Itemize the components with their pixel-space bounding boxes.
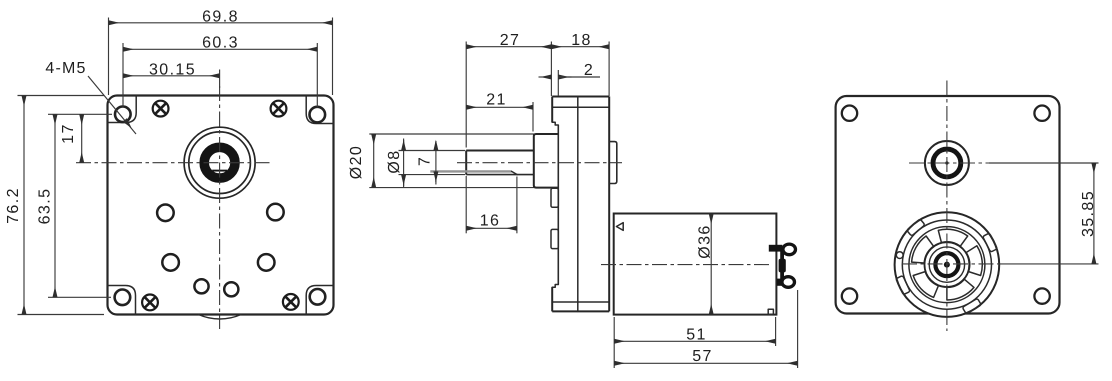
rim tab 2 — [983, 233, 998, 252]
dim 69.8 line — [109, 22, 333, 24]
rear bearing boss — [609, 142, 617, 184]
rim tab 4 — [896, 276, 910, 295]
dim Ø20 extension bottom — [369, 187, 534, 189]
brush card blob — [779, 259, 786, 273]
small hole E — [194, 279, 208, 293]
corner pad top-left — [108, 96, 137, 123]
dim 63.5 line — [54, 114, 56, 297]
dim 69.8 extension left — [108, 18, 110, 96]
small hole D — [258, 254, 275, 271]
vent slot 2 — [938, 229, 967, 246]
flange boss bump upper — [551, 188, 558, 207]
dim Ø36 line — [710, 214, 712, 315]
dim 63.5 extension top — [48, 113, 112, 115]
shaft top edge — [466, 150, 534, 152]
dim 17 line — [81, 114, 83, 162]
shaft flat chord — [212, 170, 227, 172]
vertical centerline — [219, 86, 221, 329]
terminal ring upper — [783, 244, 796, 255]
front plate outline — [108, 96, 334, 315]
dim 57 line — [614, 362, 797, 364]
gearbox case top edge — [552, 96, 609, 98]
terminal lug lower — [777, 279, 784, 286]
dim 27 line — [466, 46, 551, 48]
shaft flat edge (gray) — [430, 170, 511, 172]
motor cap rim circle — [902, 220, 991, 309]
shaft end face — [465, 151, 467, 175]
dim 16 extension right — [516, 177, 518, 234]
dim 69.8 extension right — [332, 18, 334, 96]
dim 21 line — [466, 106, 533, 108]
dim 60.3 line — [123, 48, 317, 50]
svg-text:7: 7 — [417, 156, 434, 166]
horizontal centerline — [76, 162, 270, 164]
dim 16 extension left — [465, 176, 467, 233]
svg-text:4-M5: 4-M5 — [45, 60, 86, 77]
output shaft boss circle outer — [184, 127, 255, 198]
svg-text:Ø36: Ø36 — [697, 224, 714, 258]
output boss — [534, 134, 559, 188]
dim 63.5 extension bottom — [48, 296, 111, 298]
dim 60.3 extension left — [122, 43, 124, 107]
mounting hole top-left — [115, 107, 131, 123]
motor cap face circle — [909, 227, 985, 303]
dim Ø20 line — [373, 134, 375, 188]
dim 51 extension left — [613, 317, 615, 368]
small hole C — [162, 254, 179, 271]
svg-text:30.15: 30.15 — [149, 61, 196, 78]
screw bottom-left — [142, 295, 158, 311]
brush cap detail triangle — [616, 223, 623, 231]
vent slot 5 — [913, 272, 938, 298]
dim 2 arrow left — [539, 76, 552, 78]
cap pilot hole — [896, 252, 903, 259]
dim 76.2 line — [23, 96, 25, 315]
rear bearing center dot — [945, 161, 948, 164]
dim Ø8 arrow top — [403, 140, 405, 151]
dim 76.2 extension top — [18, 95, 105, 97]
dim 57 extension right — [797, 290, 799, 368]
dim 7 arrow top — [435, 142, 437, 151]
motor centerline — [601, 264, 770, 266]
svg-text:21: 21 — [486, 92, 507, 109]
dim 51 line — [614, 340, 775, 342]
svg-text:2: 2 — [584, 62, 594, 79]
dim 16 line — [466, 227, 517, 229]
mounting hole bottom-right — [310, 289, 326, 305]
svg-text:17: 17 — [60, 123, 77, 144]
svg-text:57: 57 — [692, 348, 713, 365]
gearbox case bottom edge — [552, 310, 609, 312]
bearing ring (thick) — [204, 147, 235, 178]
brush card bar — [780, 249, 784, 282]
rear bearing crosshair — [909, 162, 989, 164]
rear plate outline — [836, 96, 1060, 314]
shaft centerline — [457, 162, 622, 164]
flange pad step top — [552, 122, 558, 125]
svg-text:69.8: 69.8 — [202, 9, 239, 26]
dim 7 line — [435, 141, 437, 185]
rear hole bottom-right — [1034, 288, 1049, 303]
vent slot 3 — [966, 246, 982, 276]
vent slot 1 — [912, 236, 934, 263]
vent slot 4 — [947, 279, 974, 300]
small hole B — [267, 204, 284, 221]
dim 60.3 extension right — [316, 43, 318, 108]
rim tab 1 — [907, 219, 925, 236]
dim 35.85 extension bottom — [1000, 263, 1099, 265]
screw top-right — [271, 101, 287, 117]
shaft bottom edge — [466, 174, 534, 176]
motor cap outer circle — [895, 212, 1000, 317]
rear hole top-right — [1034, 106, 1049, 121]
rear hole top-left — [842, 106, 857, 121]
flange pad face bottom — [551, 287, 553, 311]
rear hole bottom-left — [842, 288, 857, 303]
svg-text:60.3: 60.3 — [202, 35, 239, 52]
corner pad bottom-right — [306, 286, 333, 315]
rear bearing boss outer — [925, 141, 969, 185]
shaft flat runout — [512, 171, 518, 174]
svg-text:51: 51 — [686, 326, 707, 343]
case divider line — [577, 97, 579, 312]
svg-text:27: 27 — [500, 32, 521, 49]
cap hub circle inner — [929, 247, 964, 282]
gearbox case top seam — [552, 106, 609, 108]
cap hub circle outer — [925, 242, 970, 287]
rim tab 3 — [962, 298, 981, 314]
rear bearing ring thick — [933, 149, 961, 177]
small hole F — [224, 282, 238, 296]
mounting hole bottom-left — [115, 290, 131, 306]
cap shaft dot — [944, 262, 950, 268]
dim 35.85 line — [1093, 163, 1095, 264]
terminal lug upper — [769, 245, 783, 252]
svg-text:Ø20: Ø20 — [348, 145, 365, 179]
case rear face — [608, 97, 610, 312]
svg-text:76.2: 76.2 — [5, 187, 22, 224]
label 4-M5 leader — [88, 76, 136, 134]
corner pad bottom-left — [108, 286, 136, 315]
dim 2 extension — [557, 70, 559, 96]
dim 30.15 extension right — [219, 70, 221, 89]
small hole A — [157, 205, 174, 222]
dim 2 tail — [558, 76, 600, 78]
dim Ø8 line — [403, 139, 405, 188]
dim 18 line — [551, 46, 609, 48]
dim 51 extension right — [775, 317, 777, 346]
dim 30.15 line — [123, 75, 220, 77]
svg-text:18: 18 — [571, 32, 592, 49]
dim Ø8 arrow bottom — [403, 175, 405, 186]
dim Ø20 extension top — [369, 133, 534, 135]
motor body — [614, 214, 777, 315]
flange pad step bottom — [552, 285, 558, 288]
flange pad face top — [551, 97, 553, 123]
dim Ø8 extension top — [399, 150, 466, 152]
screw top-left — [153, 101, 169, 117]
dim 21 extension right — [532, 102, 534, 132]
cap bearing ring — [935, 253, 958, 276]
gearbox case bottom seam — [552, 301, 609, 303]
svg-text:Ø8: Ø8 — [386, 149, 403, 173]
motor bottom-right detail square — [768, 309, 773, 314]
rear vertical centerline — [946, 81, 948, 332]
corner pad top-right — [306, 96, 333, 124]
flange boss bump lower — [551, 229, 558, 248]
dim 35.85 extension bottom crosshair — [902, 263, 1000, 265]
output shaft boss circle 2 — [189, 132, 251, 194]
flange plate face — [557, 125, 559, 285]
svg-text:63.5: 63.5 — [37, 188, 54, 225]
dim 76.2 extension bottom — [18, 314, 105, 316]
dim 18 extension right — [608, 42, 610, 97]
dim 27 extension left — [465, 42, 467, 148]
dim 35.85 extension top — [989, 162, 1099, 164]
terminal ring lower — [782, 277, 795, 288]
dim 27/18 extension mid — [550, 42, 552, 97]
svg-text:35.85: 35.85 — [1080, 190, 1097, 237]
dim 7 arrow bottom — [435, 171, 437, 182]
screw bottom-right — [283, 294, 299, 310]
motor silhouette arc below plate — [199, 315, 242, 320]
label 4-M5 leader arrow — [123, 118, 132, 128]
mounting hole top-right — [310, 107, 326, 123]
dim Ø8 extension bottom — [399, 174, 466, 176]
dim 2 arrow right — [558, 76, 571, 78]
svg-text:16: 16 — [480, 213, 501, 230]
